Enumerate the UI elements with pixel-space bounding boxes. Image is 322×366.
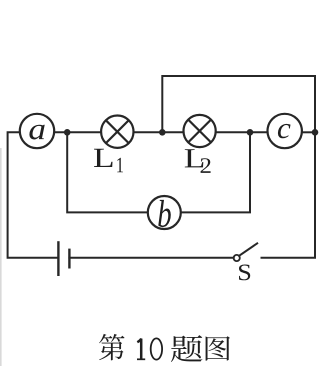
node junction on right rail — [312, 129, 319, 136]
wire: meter a to lamp L1 — [54, 131, 101, 133]
battery cell short plate — [68, 249, 70, 269]
wire: lamp L1 to lamp L2 — [134, 131, 184, 133]
node junction between L1 and L2 — [159, 129, 166, 136]
caption char 图 — [206, 336, 230, 360]
wire: right rail bottom to switch — [262, 257, 316, 259]
wire: meter c to right rail — [302, 131, 315, 133]
label c (meter c) — [278, 124, 291, 138]
wire: battery to switch — [69, 257, 233, 259]
switch S lever — [239, 243, 258, 256]
caption digit 0 — [151, 338, 162, 359]
lamp L2 — [184, 115, 216, 147]
label b (meter b) — [158, 200, 171, 227]
caption digit 1 — [137, 339, 145, 360]
subscript 2 of L2 — [201, 158, 211, 173]
switch S pivot circle — [234, 255, 240, 261]
subscript 1 of L1 — [117, 158, 123, 172]
node junction right of L2 — [247, 129, 254, 136]
meter b circle — [148, 196, 181, 229]
meter c circle — [268, 114, 302, 148]
caption char 题 — [171, 335, 202, 362]
label L of L1 — [94, 149, 113, 167]
wire: lamp L2 to meter c — [216, 131, 268, 133]
wire: top-left corner to meter a, left rail down, bottom to battery — [8, 132, 58, 257]
scan edge artifact — [0, 148, 2, 366]
label L of L2 — [185, 149, 204, 167]
caption char 第 — [99, 334, 124, 360]
battery cell long plate — [57, 241, 59, 276]
label a (meter a) — [29, 125, 44, 140]
label S (switch) — [239, 265, 250, 281]
wire: top bypass from node between L1 and L2 over to right rail down to switch level — [162, 76, 315, 257]
wire: b branch left vertical and left horizontal — [67, 133, 148, 212]
node junction left of L1 — [64, 129, 71, 136]
meter a circle — [20, 114, 54, 148]
wire: b branch right horizontal and right vertical — [181, 133, 250, 212]
lamp L1 — [101, 116, 133, 148]
